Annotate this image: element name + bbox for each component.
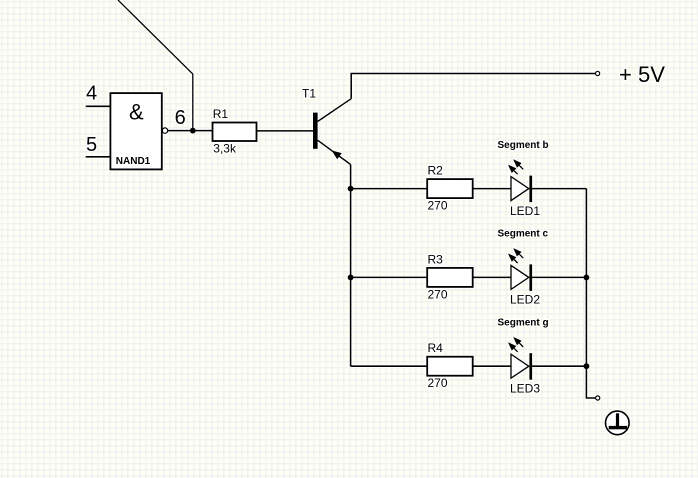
wire	[473, 188, 511, 190]
svg-text:LED2: LED2	[510, 293, 540, 307]
svg-text:3,3k: 3,3k	[213, 142, 237, 156]
junction	[348, 275, 354, 281]
NAND gate NAND1	[110, 93, 161, 169]
svg-text:+ 5V: + 5V	[619, 62, 665, 87]
Segment b label	[498, 140, 549, 151]
terminal	[596, 396, 600, 400]
terminal +5V	[596, 71, 600, 75]
wire	[351, 365, 428, 367]
transistor T1	[313, 99, 351, 165]
svg-text:Segment g: Segment g	[498, 318, 549, 329]
junction	[190, 128, 196, 134]
inversion bubble	[162, 128, 167, 133]
wire	[532, 365, 586, 367]
wire	[532, 188, 586, 190]
wire	[473, 276, 511, 278]
earth ground symbol	[606, 411, 630, 435]
LED LED2	[508, 248, 532, 291]
svg-text:5: 5	[86, 134, 97, 156]
wire	[351, 74, 595, 99]
Segment c label	[498, 229, 549, 240]
svg-text:R4: R4	[428, 341, 444, 355]
svg-text:6: 6	[175, 107, 186, 129]
pin 4 label	[86, 83, 97, 105]
svg-text:Segment b: Segment b	[498, 140, 549, 151]
pin 5 label	[86, 134, 97, 156]
LED LED3	[508, 337, 532, 380]
wire	[118, 0, 193, 131]
+5V label	[619, 62, 665, 87]
svg-text:LED3: LED3	[510, 382, 540, 396]
wire	[473, 365, 511, 367]
wire	[351, 276, 428, 278]
junction	[348, 186, 354, 192]
svg-text:R3: R3	[428, 252, 444, 266]
wire	[86, 105, 111, 107]
svg-text:R2: R2	[428, 164, 444, 178]
svg-text:R1: R1	[213, 107, 229, 121]
wire	[86, 156, 111, 158]
wire	[257, 130, 314, 132]
svg-text:LED1: LED1	[510, 204, 540, 218]
junction	[584, 275, 590, 281]
resistor R2	[427, 164, 473, 213]
resistor R4	[427, 341, 473, 390]
LED1 label	[510, 204, 540, 218]
LED3 label	[510, 382, 540, 396]
svg-text:270: 270	[428, 287, 448, 301]
junction	[584, 363, 590, 369]
svg-text:NAND1: NAND1	[116, 156, 151, 167]
pin 6 label	[175, 107, 186, 129]
T1 label	[302, 87, 316, 101]
wire	[586, 189, 595, 398]
wire	[168, 130, 213, 132]
wire	[351, 188, 428, 190]
wire	[350, 165, 352, 367]
svg-text:4: 4	[86, 83, 97, 105]
svg-text:T1: T1	[302, 87, 316, 101]
resistor R3	[427, 252, 473, 301]
Segment g label	[498, 318, 549, 329]
svg-text:&: &	[129, 100, 144, 125]
wire	[532, 276, 586, 278]
svg-text:270: 270	[428, 199, 448, 213]
LED2 label	[510, 293, 540, 307]
svg-text:Segment c: Segment c	[498, 229, 549, 240]
resistor R1	[213, 107, 257, 155]
LED LED1	[508, 159, 532, 202]
svg-text:270: 270	[428, 376, 448, 390]
